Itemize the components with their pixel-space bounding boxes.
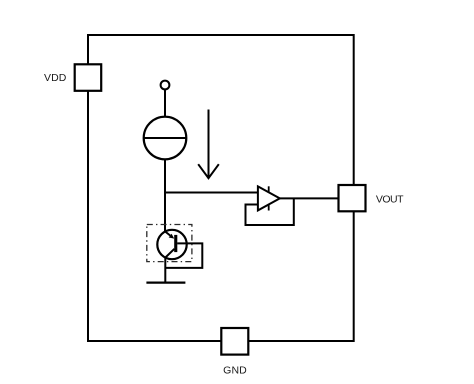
dash-dot highlight box around Q1 xyxy=(147,225,192,262)
svg-text:VOUT: VOUT xyxy=(376,194,404,206)
current source I1: top terminal circle xyxy=(161,81,170,90)
buffer U1: upper input tick xyxy=(268,186,270,193)
current direction arrow xyxy=(198,110,219,179)
wire: current source output down to node A xyxy=(164,159,166,232)
pad VDD xyxy=(75,64,102,91)
svg-text:VDD: VDD xyxy=(44,72,67,84)
wire: buffer output to VOUT pad xyxy=(280,197,340,199)
transistor Q1: collector diagonal xyxy=(165,249,174,258)
wire: diode connection base to collector xyxy=(165,243,202,268)
ground xyxy=(146,282,185,284)
transistor Q1: body circle xyxy=(157,230,186,259)
buffer U1: triangle xyxy=(258,186,280,210)
wire: terminal to current source xyxy=(164,90,166,117)
wire: node A to buffer input xyxy=(164,192,259,194)
wire: feedback loop output to buffer input xyxy=(246,198,294,225)
transistor Q1: emitter with arrow xyxy=(165,232,174,239)
pad GND xyxy=(221,328,248,355)
current source I1: body circle xyxy=(144,117,187,160)
wire: supply loop (outer rectangle VDD rail / GND rail) xyxy=(88,35,354,341)
pad VOUT xyxy=(339,185,366,211)
svg-text:GND: GND xyxy=(223,364,247,376)
wire: collector down to ground xyxy=(164,257,166,282)
transistor Q1: base bar xyxy=(174,235,177,252)
current source I1: diameter bar xyxy=(144,137,186,139)
buffer U1: lower input tick xyxy=(268,204,270,211)
